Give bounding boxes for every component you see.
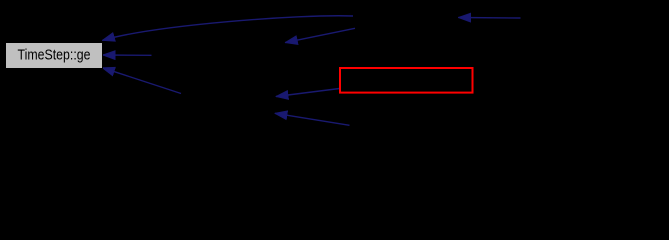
wire: edge from top-middle hidden node to TimeStep node (curved): [103, 16, 354, 41]
svg-text:TimeStep::ge: TimeStep::ge: [18, 47, 91, 64]
wire: edge from bottom-right hidden node to lower hidden node: [275, 113, 350, 125]
wire: edge from lower hidden node to TimeStep node bottom corner: [103, 68, 182, 94]
wire: edge from red node to lower hidden node: [276, 89, 340, 97]
node TimeStep::ge (current function, grey): [6, 43, 103, 69]
wire: short horizontal edge from middle hidden node to TimeStep node: [103, 54, 152, 56]
wire: edge from top hidden node to middle hidden node: [285, 28, 355, 42]
wire: edge from far-right hidden node to top hidden node: [459, 17, 521, 20]
node highlighted caller (red outline, label invisible on black): [340, 68, 473, 93]
